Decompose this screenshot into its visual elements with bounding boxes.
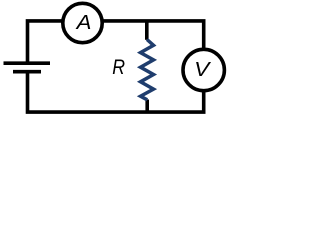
svg-text:A: A bbox=[75, 12, 91, 34]
wire bottom-left: from battery down, along bottom, up right side to voltmeter bbox=[28, 72, 204, 112]
battery B1 long plate (positive terminal) bbox=[4, 61, 51, 65]
svg-text:V: V bbox=[194, 59, 212, 81]
svg-text:R: R bbox=[112, 56, 125, 79]
voltmeter V (circle) bbox=[183, 49, 224, 90]
wire resistor branch bottom stub bbox=[145, 100, 149, 113]
battery B1 short plate (negative terminal) bbox=[13, 70, 41, 74]
wire top-right: from ammeter right to top-right corner, down to voltmeter bbox=[103, 21, 204, 49]
ammeter A (circle) bbox=[63, 3, 102, 42]
wire resistor branch top stub bbox=[145, 21, 149, 40]
resistor R (blue zigzag) bbox=[141, 40, 154, 100]
wire top-left: from ammeter left to top-left corner and down to battery bbox=[28, 21, 63, 62]
